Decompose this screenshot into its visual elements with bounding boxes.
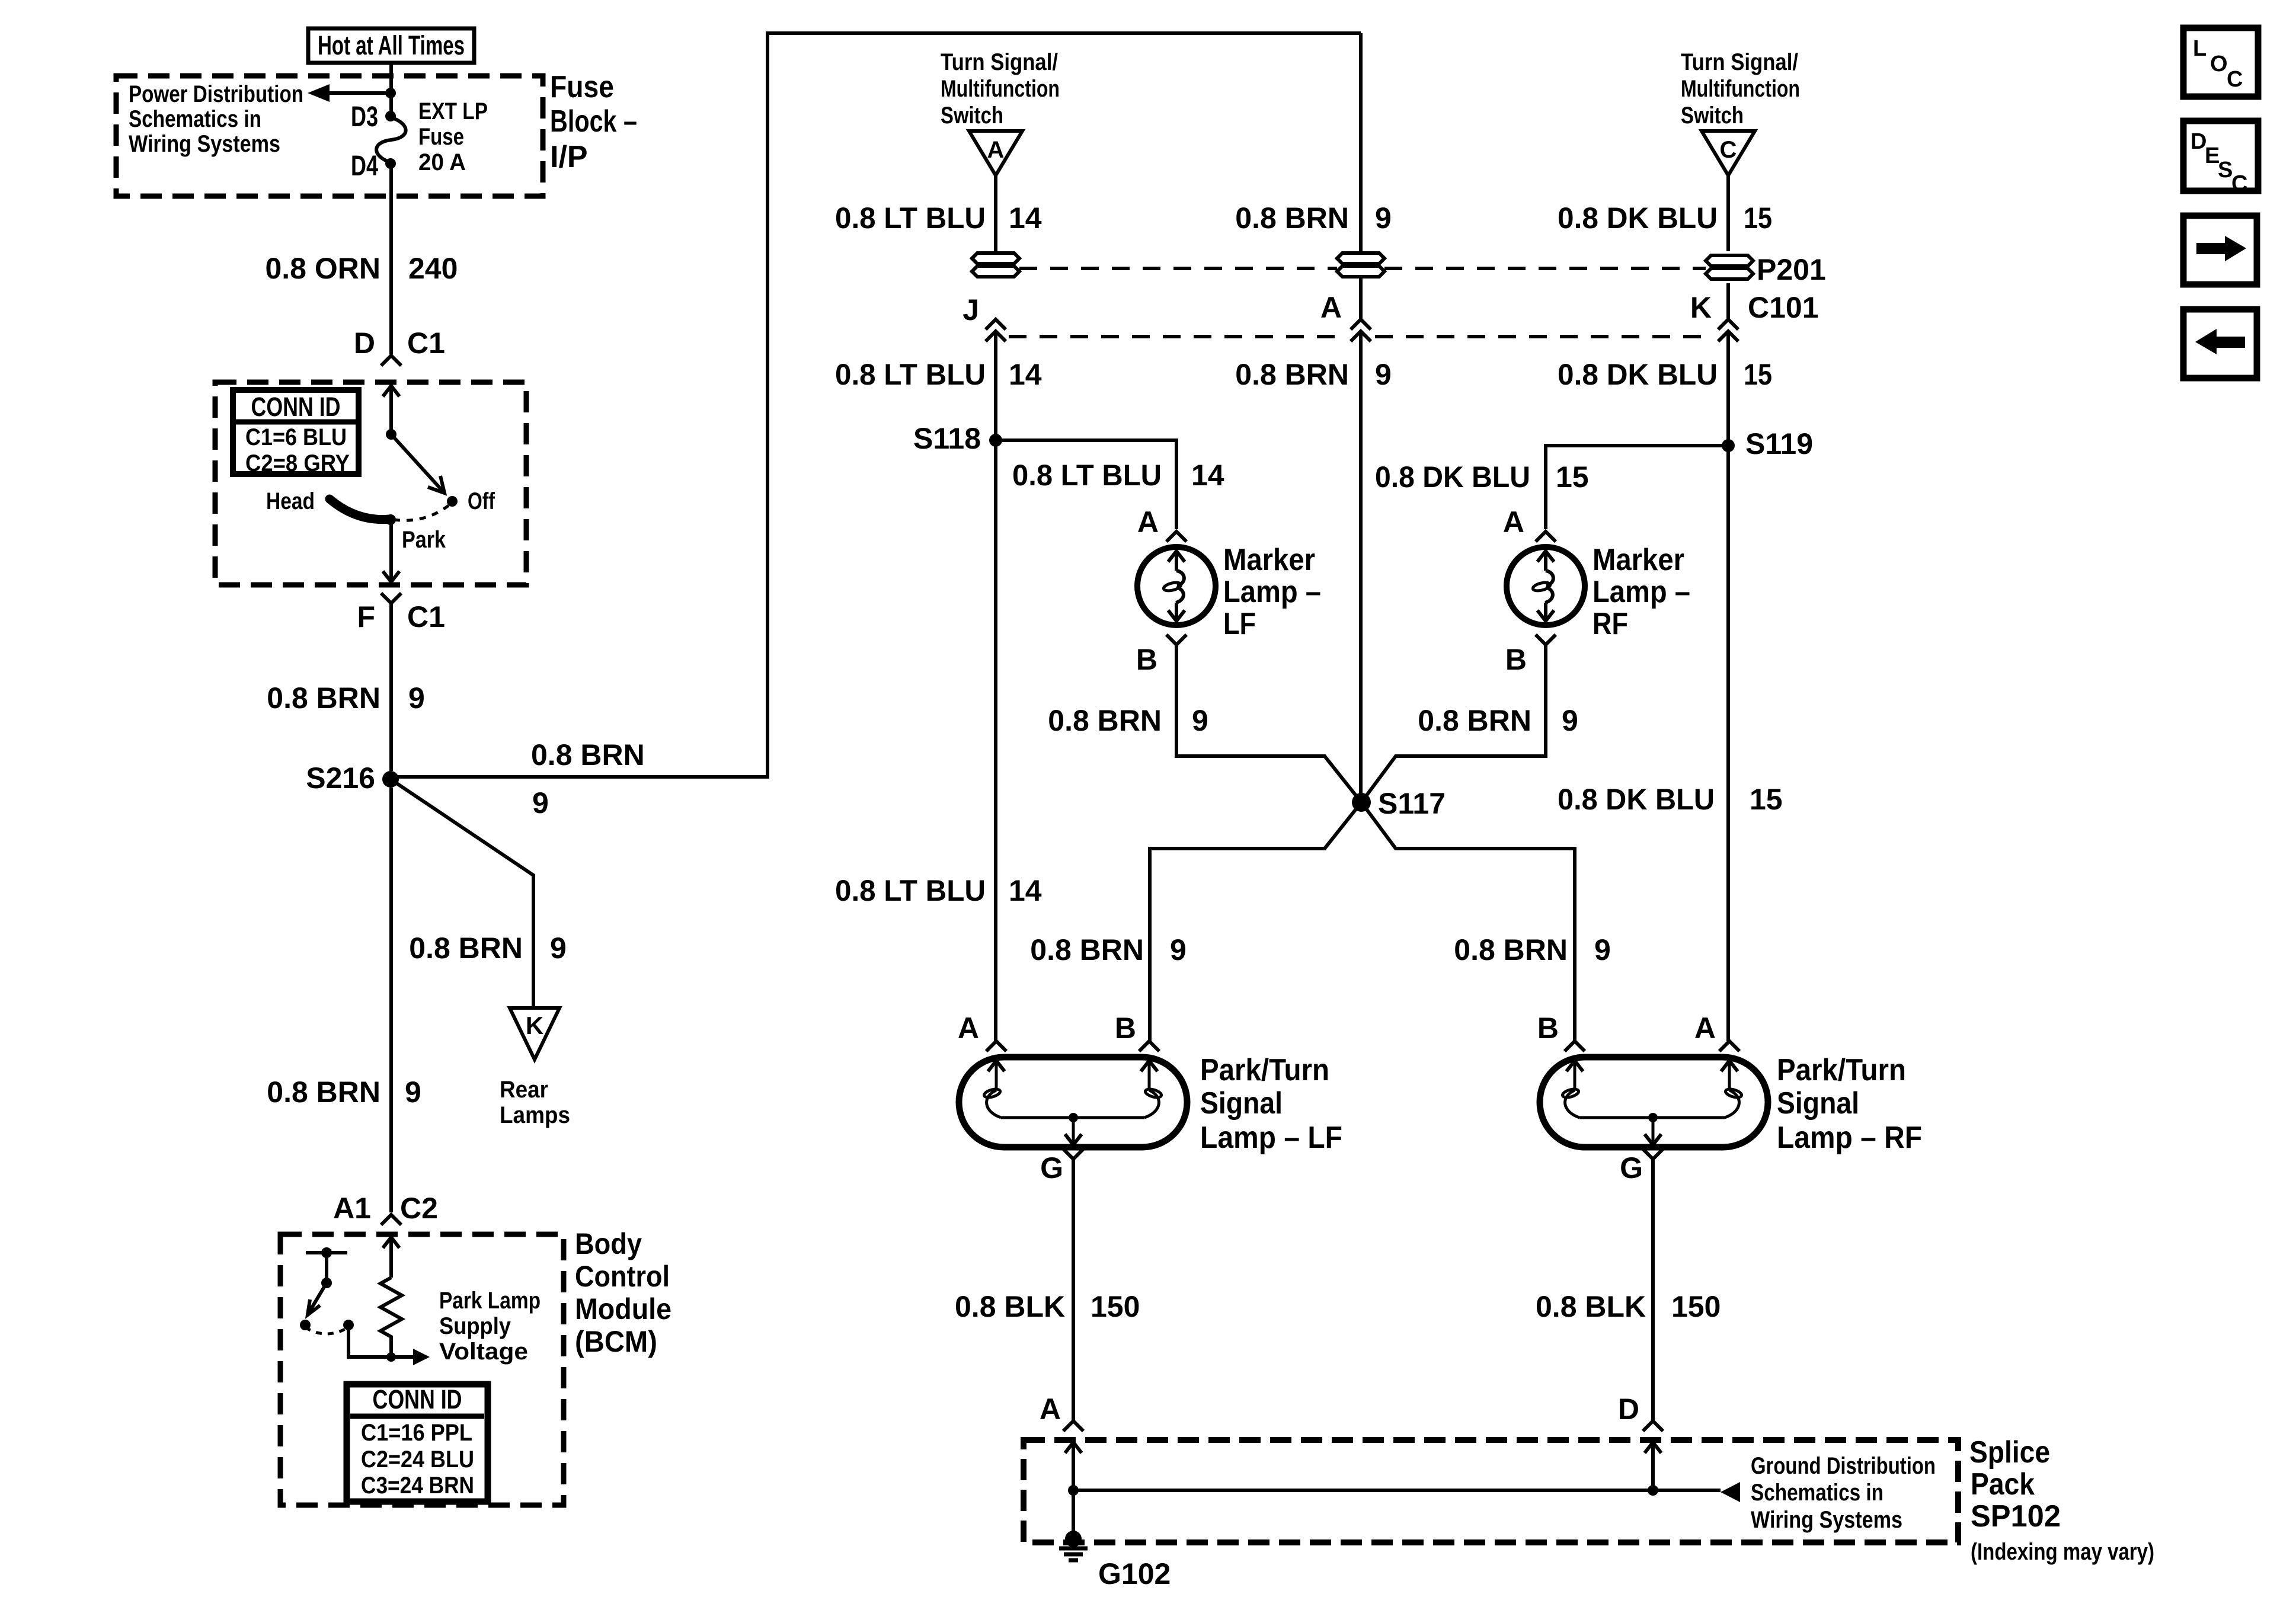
- label: Park/Turn Signal Lamp - RF: [1777, 1053, 1922, 1155]
- label: 0.8 BLK (LF): [955, 1290, 1065, 1323]
- label: Park/Turn Signal Lamp - LF: [1200, 1053, 1342, 1155]
- svg-text:S119: S119: [1745, 427, 1813, 460]
- svg-text:C2=24 BLU: C2=24 BLU: [361, 1446, 474, 1473]
- svg-text:C1=16 PPL: C1=16 PPL: [361, 1420, 472, 1446]
- wire: S119 branch to marker lamp RF: [1546, 446, 1728, 529]
- wire: park LF ground 0.8 BLK 150: [1072, 1159, 1075, 1421]
- svg-text:Supply: Supply: [439, 1313, 511, 1339]
- label: 0.8 BRN (park LF): [1030, 933, 1144, 966]
- wire: power distribution arrow: [308, 84, 391, 102]
- svg-text:15: 15: [1556, 460, 1589, 494]
- connector C1 (switch bottom): [381, 593, 401, 603]
- svg-text:A1: A1: [333, 1192, 371, 1225]
- connector C101 (right): [1718, 319, 1738, 341]
- svg-text:0.8 BRN: 0.8 BRN: [1235, 201, 1349, 235]
- nav box DESC: [2183, 121, 2258, 196]
- svg-text:0.8 BRN: 0.8 BRN: [1454, 933, 1568, 966]
- label: 150 (RF): [1671, 1290, 1721, 1323]
- label: Marker Lamp - RF: [1593, 543, 1690, 641]
- svg-text:Switch: Switch: [1681, 103, 1744, 129]
- label: 0.8 DK BLU (marker RF): [1375, 460, 1530, 494]
- svg-text:Splice: Splice: [1969, 1435, 2050, 1470]
- label: Ground Distribution Schematics in Wiring Systems: [1751, 1453, 1936, 1533]
- junction at fuse feed: [385, 88, 396, 98]
- park/turn signal lamp LF: [959, 1057, 1187, 1147]
- wire: splice pack A leg: [1065, 1442, 1082, 1535]
- svg-text:0.8 BRN: 0.8 BRN: [1030, 933, 1144, 966]
- off-page connector C turn signal switch: [1702, 131, 1755, 175]
- pin B (marker LF): [1136, 635, 1187, 676]
- label: 9 (to BCM): [405, 1076, 421, 1109]
- svg-text:G: G: [1620, 1151, 1643, 1185]
- svg-text:Ground Distribution: Ground Distribution: [1751, 1453, 1936, 1479]
- svg-text:D: D: [354, 327, 375, 360]
- svg-text:Schematics in: Schematics in: [1751, 1480, 1884, 1506]
- label: Rear Lamps: [500, 1077, 570, 1128]
- label: 0.8 BRN (middle row2): [1235, 358, 1349, 391]
- pin A (splice pack): [1040, 1393, 1083, 1431]
- svg-text:Block –: Block –: [550, 104, 637, 139]
- wire: S117 to park/turn RF B: [1361, 802, 1575, 1041]
- svg-text:9: 9: [1375, 358, 1392, 391]
- park/turn signal lamp RF: [1540, 1057, 1768, 1147]
- svg-text:Marker: Marker: [1223, 543, 1315, 577]
- label: 15 (row1): [1744, 201, 1772, 235]
- junction: resistor to output: [386, 1352, 396, 1362]
- svg-text:C2: C2: [400, 1192, 438, 1225]
- svg-text:C1: C1: [407, 327, 445, 360]
- svg-text:P201: P201: [1757, 253, 1826, 286]
- svg-text:C: C: [1720, 137, 1737, 163]
- marker lamp LF: [1137, 547, 1216, 625]
- label: 0.8 LT BLU: [835, 201, 986, 235]
- svg-text:F: F: [357, 600, 375, 633]
- node Head: [266, 488, 315, 514]
- CONN ID table (switch): [233, 390, 359, 476]
- svg-text:Marker: Marker: [1593, 543, 1684, 577]
- dashed arc Park-Off: [394, 505, 449, 520]
- svg-text:C1=6 BLU: C1=6 BLU: [245, 424, 347, 450]
- label: (Indexing may vary): [1971, 1539, 2154, 1565]
- label: 15 (marker RF): [1556, 460, 1589, 494]
- svg-text:Pack: Pack: [1971, 1467, 2035, 1502]
- svg-text:S117: S117: [1378, 787, 1446, 820]
- marker lamp RF: [1507, 547, 1585, 625]
- splice pack SP102 dashed box: [1024, 1440, 1958, 1542]
- wire: Hot feed into fuse: [389, 62, 393, 116]
- label: 150 (LF): [1091, 1290, 1140, 1323]
- label: Fuse Block - I/P: [550, 70, 637, 174]
- off-page connector A turn signal switch: [969, 131, 1022, 175]
- svg-text:CONN ID: CONN ID: [373, 1384, 462, 1414]
- label: 0.8 LT BLU (marker LF): [1012, 459, 1162, 492]
- svg-text:9: 9: [1594, 933, 1611, 966]
- svg-text:Signal: Signal: [1777, 1086, 1859, 1121]
- svg-text:Wiring Systems: Wiring Systems: [1751, 1507, 1902, 1533]
- wire: BCM input arrow: [383, 1237, 399, 1278]
- label: 9 (branch): [532, 786, 549, 820]
- svg-text:150: 150: [1671, 1290, 1721, 1323]
- label: 0.8 BRN (rear): [409, 932, 523, 965]
- dashed arc: switch throw: [305, 1327, 348, 1334]
- connector C101 (middle): [1351, 319, 1371, 341]
- pin F: [357, 600, 375, 633]
- label: Turn Signal/Multifunction Switch (A): [941, 49, 1060, 129]
- svg-text:Lamp – LF: Lamp – LF: [1200, 1121, 1342, 1155]
- svg-text:14: 14: [1009, 201, 1042, 235]
- label: 15 (below S119): [1750, 783, 1783, 816]
- svg-text:0.8 BLK: 0.8 BLK: [955, 1290, 1065, 1323]
- switch: BCM internal park lamp switch: [300, 1247, 347, 1330]
- svg-text:Fuse: Fuse: [550, 70, 614, 104]
- svg-text:Turn Signal/: Turn Signal/: [1681, 49, 1798, 75]
- label: 0.8 BRN (park RF): [1454, 933, 1568, 966]
- svg-text:RF: RF: [1593, 607, 1628, 641]
- node Park: [385, 514, 446, 553]
- svg-text:14: 14: [1009, 358, 1042, 391]
- svg-text:Lamp –: Lamp –: [1593, 575, 1690, 609]
- pin B (park RF): [1537, 1012, 1585, 1051]
- label: Turn Signal/Multifunction Switch (C): [1681, 49, 1800, 129]
- svg-text:Park/Turn: Park/Turn: [1777, 1053, 1906, 1087]
- svg-text:D: D: [1618, 1393, 1639, 1426]
- svg-text:C: C: [2227, 67, 2243, 92]
- pin A1: [333, 1192, 371, 1225]
- wire: 0.8 BRN 9 to S216: [389, 603, 393, 771]
- wire: marker LF B to S117 0.8 BRN 9: [1176, 645, 1361, 802]
- svg-text:SP102: SP102: [1971, 1499, 2061, 1534]
- connector C1 (switch top): [381, 327, 445, 366]
- label: 9 (middle row1): [1375, 201, 1392, 235]
- svg-text:0.8 DK BLU: 0.8 DK BLU: [1558, 358, 1718, 391]
- pin J: [962, 293, 979, 327]
- svg-text:0.8 LT BLU: 0.8 LT BLU: [1012, 459, 1162, 492]
- connector label C1: [407, 600, 445, 633]
- svg-text:Park/Turn: Park/Turn: [1200, 1053, 1329, 1087]
- node Off: [447, 488, 495, 514]
- switch wiper arc (Head-Park): [330, 499, 390, 520]
- svg-text:A: A: [1320, 291, 1342, 324]
- svg-text:0.8 BRN: 0.8 BRN: [531, 738, 645, 772]
- svg-text:K: K: [1690, 291, 1712, 324]
- pin D3: [351, 101, 378, 133]
- svg-text:A: A: [987, 137, 1005, 163]
- wire: 0.8 LT BLU 14 from switch A: [994, 175, 997, 254]
- svg-text:0.8 LT BLU: 0.8 LT BLU: [835, 874, 986, 907]
- svg-text:Rear: Rear: [500, 1077, 548, 1103]
- svg-text:S118: S118: [913, 422, 981, 455]
- wire: splice pack ground bus: [1073, 1482, 1740, 1502]
- svg-text:Module: Module: [575, 1292, 671, 1326]
- pin A (park RF): [1694, 1012, 1739, 1051]
- svg-text:CONN ID: CONN ID: [251, 392, 341, 422]
- CONN ID table (BCM): [347, 1384, 488, 1502]
- label: 9 (marker LF out): [1192, 704, 1208, 737]
- svg-text:A: A: [1503, 505, 1524, 539]
- label: Park Lamp Supply Voltage: [439, 1288, 541, 1365]
- svg-text:EXT LP: EXT LP: [418, 98, 488, 124]
- svg-text:14: 14: [1191, 459, 1224, 492]
- svg-text:Hot at All Times: Hot at All Times: [318, 30, 465, 60]
- wire: S118 branch to marker lamp LF: [996, 440, 1176, 529]
- label: 9 (middle row2): [1375, 358, 1392, 391]
- svg-text:LF: LF: [1223, 607, 1256, 641]
- svg-text:15: 15: [1744, 201, 1772, 235]
- wire: switch pole to output: [343, 1320, 391, 1357]
- svg-text:Head: Head: [266, 488, 315, 514]
- svg-text:Lamp – RF: Lamp – RF: [1777, 1121, 1922, 1155]
- svg-text:C2=8 GRY: C2=8 GRY: [245, 450, 350, 476]
- label: EXT LP Fuse 20 A: [418, 98, 488, 175]
- svg-text:Park Lamp: Park Lamp: [439, 1288, 541, 1314]
- grommet P201 (middle): [1337, 253, 1384, 277]
- fuse EXT LP 20 A: [376, 111, 406, 169]
- svg-text:0.8 BRN: 0.8 BRN: [267, 1076, 380, 1109]
- label: 9 (park RF): [1594, 933, 1611, 966]
- off-page connector K rear lamps: [510, 1008, 559, 1060]
- fuse block dashed box: [116, 76, 543, 196]
- svg-text:0.8 LT BLU: 0.8 LT BLU: [835, 201, 986, 235]
- svg-text:Multifunction: Multifunction: [1681, 76, 1800, 102]
- label P201: [1757, 253, 1826, 286]
- svg-text:C3=24 BRN: C3=24 BRN: [361, 1473, 474, 1499]
- svg-text:15: 15: [1744, 358, 1772, 391]
- dashed tie line P201: [1019, 267, 1706, 270]
- svg-text:0.8 DK BLU: 0.8 DK BLU: [1375, 460, 1530, 494]
- svg-text:A: A: [1137, 505, 1159, 539]
- connector C2 (BCM): [381, 1192, 438, 1225]
- svg-text:Switch: Switch: [941, 103, 1003, 129]
- nav box LOC: [2183, 28, 2258, 97]
- pin D: [354, 327, 375, 360]
- svg-text:9: 9: [1375, 201, 1392, 235]
- svg-text:Control: Control: [575, 1260, 670, 1293]
- svg-text:Body: Body: [575, 1227, 642, 1260]
- turn signal / multifunction switch dashed box: [215, 382, 526, 585]
- grommet P201 (left): [972, 253, 1019, 277]
- pin A (C101 middle): [1320, 291, 1342, 324]
- wire: park lamp supply voltage arrow: [391, 1349, 430, 1365]
- pin G (park LF): [1040, 1149, 1083, 1185]
- svg-text:0.8 BLK: 0.8 BLK: [1536, 1290, 1646, 1323]
- svg-text:K: K: [526, 1012, 543, 1039]
- splice S118: [989, 434, 1002, 447]
- dashed tie line C101: [1009, 335, 1714, 338]
- svg-text:B: B: [1505, 643, 1527, 676]
- svg-text:Multifunction: Multifunction: [941, 76, 1060, 102]
- label: 0.8 BRN (to BCM): [267, 1076, 380, 1109]
- svg-text:150: 150: [1091, 1290, 1140, 1323]
- label: 9: [408, 681, 425, 715]
- svg-text:15: 15: [1750, 783, 1783, 816]
- label S118: [913, 422, 981, 455]
- nav box arrow right: [2183, 216, 2257, 284]
- label: Splice Pack SP102: [1969, 1435, 2061, 1534]
- svg-text:(BCM): (BCM): [575, 1325, 657, 1358]
- svg-text:Wiring Systems: Wiring Systems: [129, 131, 280, 157]
- svg-text:0.8 BRN: 0.8 BRN: [267, 681, 380, 715]
- svg-text:B: B: [1115, 1012, 1136, 1045]
- nav box arrow left: [2183, 309, 2257, 378]
- label: 0.8 BRN (marker LF out): [1048, 704, 1162, 737]
- label: 9 (marker RF out): [1562, 704, 1578, 737]
- svg-text:9: 9: [1170, 933, 1187, 966]
- svg-text:0.8 BRN: 0.8 BRN: [1418, 704, 1531, 737]
- svg-text:Off: Off: [468, 488, 495, 514]
- label: Body Control Module (BCM): [575, 1227, 671, 1358]
- svg-text:B: B: [1537, 1012, 1559, 1045]
- svg-text:Signal: Signal: [1200, 1086, 1283, 1121]
- label S216: [306, 761, 375, 795]
- label: 14: [1009, 201, 1042, 235]
- wire: park RF ground 0.8 BLK 150: [1651, 1159, 1655, 1421]
- switch: headlamp switch wiper: [386, 429, 445, 493]
- svg-text:O: O: [2210, 52, 2228, 76]
- svg-text:0.8 ORN: 0.8 ORN: [265, 252, 380, 285]
- svg-text:Schematics in: Schematics in: [129, 106, 261, 132]
- label S117: [1378, 787, 1446, 820]
- svg-text:B: B: [1136, 643, 1157, 676]
- pin A (marker LF): [1137, 505, 1187, 542]
- label: 0.8 DK BLU (row2): [1558, 358, 1718, 391]
- svg-text:Power Distribution: Power Distribution: [129, 81, 303, 107]
- wire: 0.8 ORN 240 fuse output: [389, 164, 393, 354]
- svg-text:G: G: [1040, 1151, 1063, 1185]
- svg-text:S216: S216: [306, 761, 375, 795]
- svg-text:0.8 DK BLU: 0.8 DK BLU: [1558, 783, 1715, 816]
- label: 15 (row2): [1744, 358, 1772, 391]
- svg-text:J: J: [962, 293, 979, 327]
- label: Marker Lamp - LF: [1223, 543, 1321, 641]
- svg-text:C1: C1: [407, 600, 445, 633]
- svg-text:9: 9: [1192, 704, 1208, 737]
- label: 9 (park LF): [1170, 933, 1187, 966]
- wire: park output: [383, 520, 399, 582]
- svg-text:14: 14: [1009, 874, 1042, 907]
- svg-text:I/P: I/P: [550, 140, 588, 174]
- label: Power Distribution Schematics in Wiring Systems: [129, 81, 303, 157]
- label C101: [1748, 291, 1819, 324]
- label: 0.8 ORN: [265, 252, 380, 285]
- label: 14 (row2): [1009, 358, 1042, 391]
- label: 0.8 LT BLU (below S118): [835, 874, 986, 907]
- svg-text:9: 9: [1562, 704, 1578, 737]
- svg-text:C: C: [2231, 171, 2247, 196]
- svg-text:0.8 BRN: 0.8 BRN: [409, 932, 523, 965]
- svg-text:G102: G102: [1098, 1557, 1171, 1590]
- body control module dashed box: [280, 1234, 564, 1505]
- svg-text:D4: D4: [351, 151, 378, 182]
- label: 0.8 LT BLU (row2): [835, 358, 986, 391]
- svg-text:Lamp –: Lamp –: [1223, 575, 1321, 609]
- label: 0.8 BRN: [267, 681, 380, 715]
- label G102: [1098, 1557, 1171, 1590]
- wire: S216 branch to top bus: [391, 33, 1361, 777]
- ground G102: [1059, 1531, 1088, 1560]
- svg-text:0.8 DK BLU: 0.8 DK BLU: [1558, 201, 1718, 235]
- svg-text:0.8 BRN: 0.8 BRN: [1048, 704, 1162, 737]
- pin A (park LF): [958, 1012, 1006, 1051]
- svg-text:C101: C101: [1748, 291, 1819, 324]
- label: 0.8 BRN (marker RF out): [1418, 704, 1531, 737]
- label: 240: [408, 252, 458, 285]
- svg-text:Lamps: Lamps: [500, 1102, 570, 1128]
- pin B (park LF): [1115, 1012, 1159, 1051]
- wire: 0.8 BRN 9 top bus to S117: [1359, 33, 1363, 802]
- splice S216: [382, 771, 399, 788]
- label: 0.8 DK BLU (below S119): [1558, 783, 1715, 816]
- svg-text:9: 9: [405, 1076, 421, 1109]
- wire: S216 to rear lamps K: [391, 779, 533, 1008]
- label S119: [1745, 427, 1813, 460]
- connector C101 (left): [986, 319, 1006, 341]
- pin K (C101 right): [1690, 291, 1712, 324]
- svg-text:Voltage: Voltage: [439, 1339, 528, 1365]
- svg-text:0.8 BRN: 0.8 BRN: [1235, 358, 1349, 391]
- svg-text:0.8 LT BLU: 0.8 LT BLU: [835, 358, 986, 391]
- label: 0.8 BRN (branch): [531, 738, 645, 772]
- pin D (splice pack): [1618, 1393, 1663, 1431]
- svg-text:D3: D3: [351, 101, 378, 133]
- wire: S216 to BCM 0.8 BRN 9: [389, 788, 393, 1212]
- svg-text:Turn Signal/: Turn Signal/: [941, 49, 1058, 75]
- wire: marker RF B to S117 0.8 BRN 9: [1361, 645, 1546, 802]
- svg-text:A: A: [1040, 1393, 1061, 1426]
- svg-text:S: S: [2218, 158, 2233, 183]
- label: 0.8 BLK (RF): [1536, 1290, 1646, 1323]
- svg-text:9: 9: [550, 932, 567, 965]
- splice S117: [1352, 793, 1371, 812]
- svg-text:20 A: 20 A: [418, 149, 466, 175]
- pin A (marker RF): [1503, 505, 1556, 542]
- svg-text:Park: Park: [402, 527, 446, 553]
- resistor: park lamp supply pull-up: [380, 1278, 402, 1356]
- svg-text:A: A: [1694, 1012, 1716, 1045]
- wire: switch input: [383, 386, 399, 434]
- node: Hot at All Times power tag: [308, 28, 474, 63]
- label: 14 (below S118): [1009, 874, 1042, 907]
- pin D4: [351, 151, 378, 182]
- svg-text:A: A: [958, 1012, 979, 1045]
- svg-text:9: 9: [408, 681, 425, 715]
- wire: splice pack D leg: [1645, 1442, 1661, 1496]
- svg-text:L: L: [2193, 36, 2207, 61]
- label: 0.8 DK BLU (row1): [1558, 201, 1718, 235]
- grommet P201 (right): [1706, 255, 1753, 279]
- svg-text:Fuse: Fuse: [418, 124, 464, 150]
- label: 14 (marker LF): [1191, 459, 1224, 492]
- label: 9 (rear): [550, 932, 567, 965]
- wire: 0.8 DK BLU 15 from switch C: [1726, 175, 1730, 1041]
- wire: S117 to park/turn LF B: [1150, 802, 1361, 1041]
- wire: 0.8 LT BLU 14 to S118: [994, 331, 997, 1041]
- label: 0.8 BRN (middle row1): [1235, 201, 1349, 235]
- svg-text:(Indexing may vary): (Indexing may vary): [1971, 1539, 2154, 1565]
- splice S119: [1722, 439, 1735, 452]
- pin B (marker RF): [1505, 635, 1556, 676]
- svg-text:9: 9: [532, 786, 549, 820]
- svg-text:240: 240: [408, 252, 458, 285]
- pin G (park RF): [1620, 1149, 1663, 1185]
